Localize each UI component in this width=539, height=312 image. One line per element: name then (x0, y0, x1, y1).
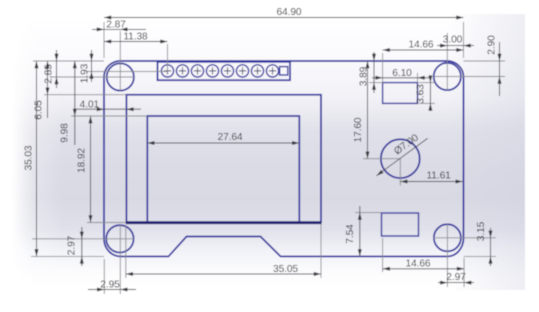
pad 4 (206, 65, 218, 77)
3.89 arrows outside (372, 54, 376, 61)
svg-text:2.97: 2.97 (66, 235, 77, 255)
small rect bottom-right (382, 213, 419, 236)
svg-text:64.90: 64.90 (277, 7, 302, 18)
dim 35.05 (126, 273, 321, 275)
11.61 arrows (400, 180, 407, 184)
PCB board outline (104, 61, 464, 256)
dim 3.15 (490, 228, 492, 266)
ext rect TR right corner up 6.10 (417, 73, 419, 83)
display active area (147, 116, 299, 222)
crosshair TR hole horizontal 2.90 (434, 76, 505, 78)
pad crosses (164, 67, 276, 74)
display bottom thick edge (126, 221, 322, 224)
svg-text:18.92: 18.92 (77, 148, 88, 173)
3.15 arrows outside (489, 231, 493, 238)
2.95 arrows outside (97, 288, 104, 292)
ext rect BR top-left corner left 7.54 (355, 212, 382, 214)
svg-text:35.05: 35.05 (273, 264, 298, 275)
hole top-right (434, 63, 461, 90)
27.64 arrows (147, 141, 154, 145)
dim 14.66 bottom (383, 268, 465, 270)
14.66 bottom arrows (383, 267, 390, 271)
svg-text:2.95: 2.95 (100, 280, 120, 291)
crosshair BR hole vertical 2.97 (446, 224, 448, 287)
6.10 arrows outside (375, 76, 382, 80)
svg-text:3.00: 3.00 (443, 35, 463, 46)
3.63 arrows outside (428, 75, 432, 82)
ext glass left down 35.05 (125, 226, 127, 278)
dim 64.90 (104, 17, 464, 19)
1.93 arrows outside (90, 54, 94, 61)
dim 6.05 (47, 61, 49, 118)
ext board right edge down (463, 258, 465, 287)
18.92 arrows (89, 116, 93, 123)
ext bottom edge left (31, 255, 104, 257)
ext display bottom 18.92 (87, 222, 126, 224)
crosshair TL hole vertical (119, 64, 121, 91)
svg-text:6.10: 6.10 (392, 68, 412, 79)
svg-text:27.64: 27.64 (218, 132, 243, 143)
hole bottom-right (434, 224, 461, 251)
Ø7.00 leader arrow (375, 170, 383, 177)
display glass outline (126, 95, 321, 223)
crosshair TR hole vertical 3.00 (446, 33, 448, 90)
svg-text:17.60: 17.60 (353, 117, 364, 142)
svg-text:9.98: 9.98 (59, 123, 70, 143)
17.60 arrows (366, 61, 370, 68)
dim 27.64 (147, 142, 299, 144)
pad 8 (266, 65, 278, 77)
ext hole TL center up 2.87 (119, 31, 121, 64)
dim 2.97 right (438, 282, 474, 284)
ext rect TR top-left corner left 3.89 (369, 82, 383, 84)
svg-text:7.54: 7.54 (345, 224, 356, 244)
7.54 arrows (358, 213, 362, 220)
svg-text:14.66: 14.66 (409, 40, 434, 51)
pad 9 square (280, 67, 288, 75)
dim 35.03 (36, 61, 38, 256)
svg-text:3.89: 3.89 (359, 66, 370, 86)
dim 2.97 left (81, 227, 83, 266)
dim 17.60 (367, 61, 369, 159)
pin header outline (158, 62, 291, 80)
2.87 arrows outside (97, 27, 104, 31)
ext rect TR right corners for 3.63 (419, 82, 435, 84)
3.00 arrows outside (440, 44, 447, 48)
dim 1.93 (91, 50, 93, 82)
dim 11.38 (104, 41, 168, 43)
11.38 arrows (104, 40, 111, 44)
2.90 arrows outside (498, 54, 502, 61)
ext rect TR left corner up 14.66 (382, 53, 384, 83)
35.05 arrows (126, 272, 133, 276)
header pads (161, 65, 287, 77)
svg-text:1.93: 1.93 (79, 63, 90, 83)
14.66 top arrows (383, 48, 390, 52)
arrowheads (35, 16, 502, 292)
leader Ø7.00 (377, 138, 428, 176)
crosshair BR hole horizontal 3.15 (433, 237, 496, 239)
ext top edge left (33, 60, 104, 62)
ext top edge right (464, 60, 506, 62)
4.01 arrows outside (97, 107, 104, 111)
6.05 arrows (46, 61, 50, 68)
dim 4.01 (76, 108, 141, 110)
dim 3.89 (373, 52, 375, 93)
hole top-left (107, 63, 134, 90)
ext pad row center 1.93 (86, 71, 168, 73)
crosshair BL hole horizontal (32, 238, 134, 240)
dim 11.61 (400, 181, 462, 183)
svg-text:2.97: 2.97 (446, 272, 466, 283)
ext board left top for 64.90 (103, 22, 105, 58)
small rect top-right 6.10x3.63 (383, 83, 418, 104)
dim 2.85 (56, 50, 58, 88)
pad 7 (251, 65, 263, 77)
2.85 arrows outside (55, 54, 59, 61)
hole center Ø7.00 (381, 139, 420, 178)
64.90 arrows (104, 16, 111, 20)
dim 2.95 (88, 289, 136, 291)
pad 3 (191, 65, 203, 77)
dim 14.66 top (383, 49, 464, 51)
pad 1 (161, 65, 173, 77)
dim 2.90 (499, 42, 501, 96)
svg-text:11.38: 11.38 (123, 32, 148, 43)
ext board right top for 64.90 (463, 22, 465, 58)
dim 2.87 (92, 28, 146, 30)
svg-text:3.63: 3.63 (416, 84, 427, 104)
crosshair BL hole vertical 2.95 (119, 225, 121, 294)
pad 2 (176, 65, 188, 77)
9.98 arrows (73, 61, 77, 68)
dimension lines (37, 18, 500, 290)
dim 3.00 (437, 45, 474, 47)
pad 5 (221, 65, 233, 77)
ext active top 9.98 (71, 115, 147, 117)
35.03 arrows (35, 61, 39, 68)
2.97 right arrows outside (440, 281, 447, 285)
ext bottom edge right (464, 255, 497, 257)
svg-text:6.05: 6.05 (34, 100, 45, 120)
dim 9.98 (74, 61, 76, 145)
ext rect BR left corner down 14.66 (382, 238, 384, 272)
ext glass top 6.05 (44, 94, 126, 96)
dim 3.63 (429, 76, 431, 111)
svg-text:14.66: 14.66 (406, 259, 431, 270)
svg-text:11.61: 11.61 (426, 171, 451, 182)
dim 7.54 (359, 206, 361, 256)
crosshair TL hole horizontal 2.85 (50, 76, 134, 78)
svg-text:35.03: 35.03 (24, 145, 35, 170)
dim 18.92 (90, 116, 92, 223)
2.97 left arrows outside (80, 232, 84, 239)
hole bottom-left (106, 225, 133, 252)
ext pad1 up 11.38 (167, 44, 169, 71)
svg-text:4.01: 4.01 (80, 100, 100, 111)
ext circle center down 11.61 (399, 159, 401, 186)
svg-text:2.87: 2.87 (106, 20, 126, 31)
pad 6 (236, 65, 248, 77)
ext circle center left 17.60 (363, 158, 400, 160)
svg-text:2.85: 2.85 (44, 64, 55, 84)
ext board left bottom 2.95 (103, 259, 105, 294)
svg-text:3.15: 3.15 (476, 221, 487, 241)
extension lines (gray) (31, 22, 505, 294)
svg-text:2.90: 2.90 (487, 35, 498, 55)
ext glass right down 35.05 (320, 224, 322, 278)
dim 6.10 (372, 77, 429, 79)
